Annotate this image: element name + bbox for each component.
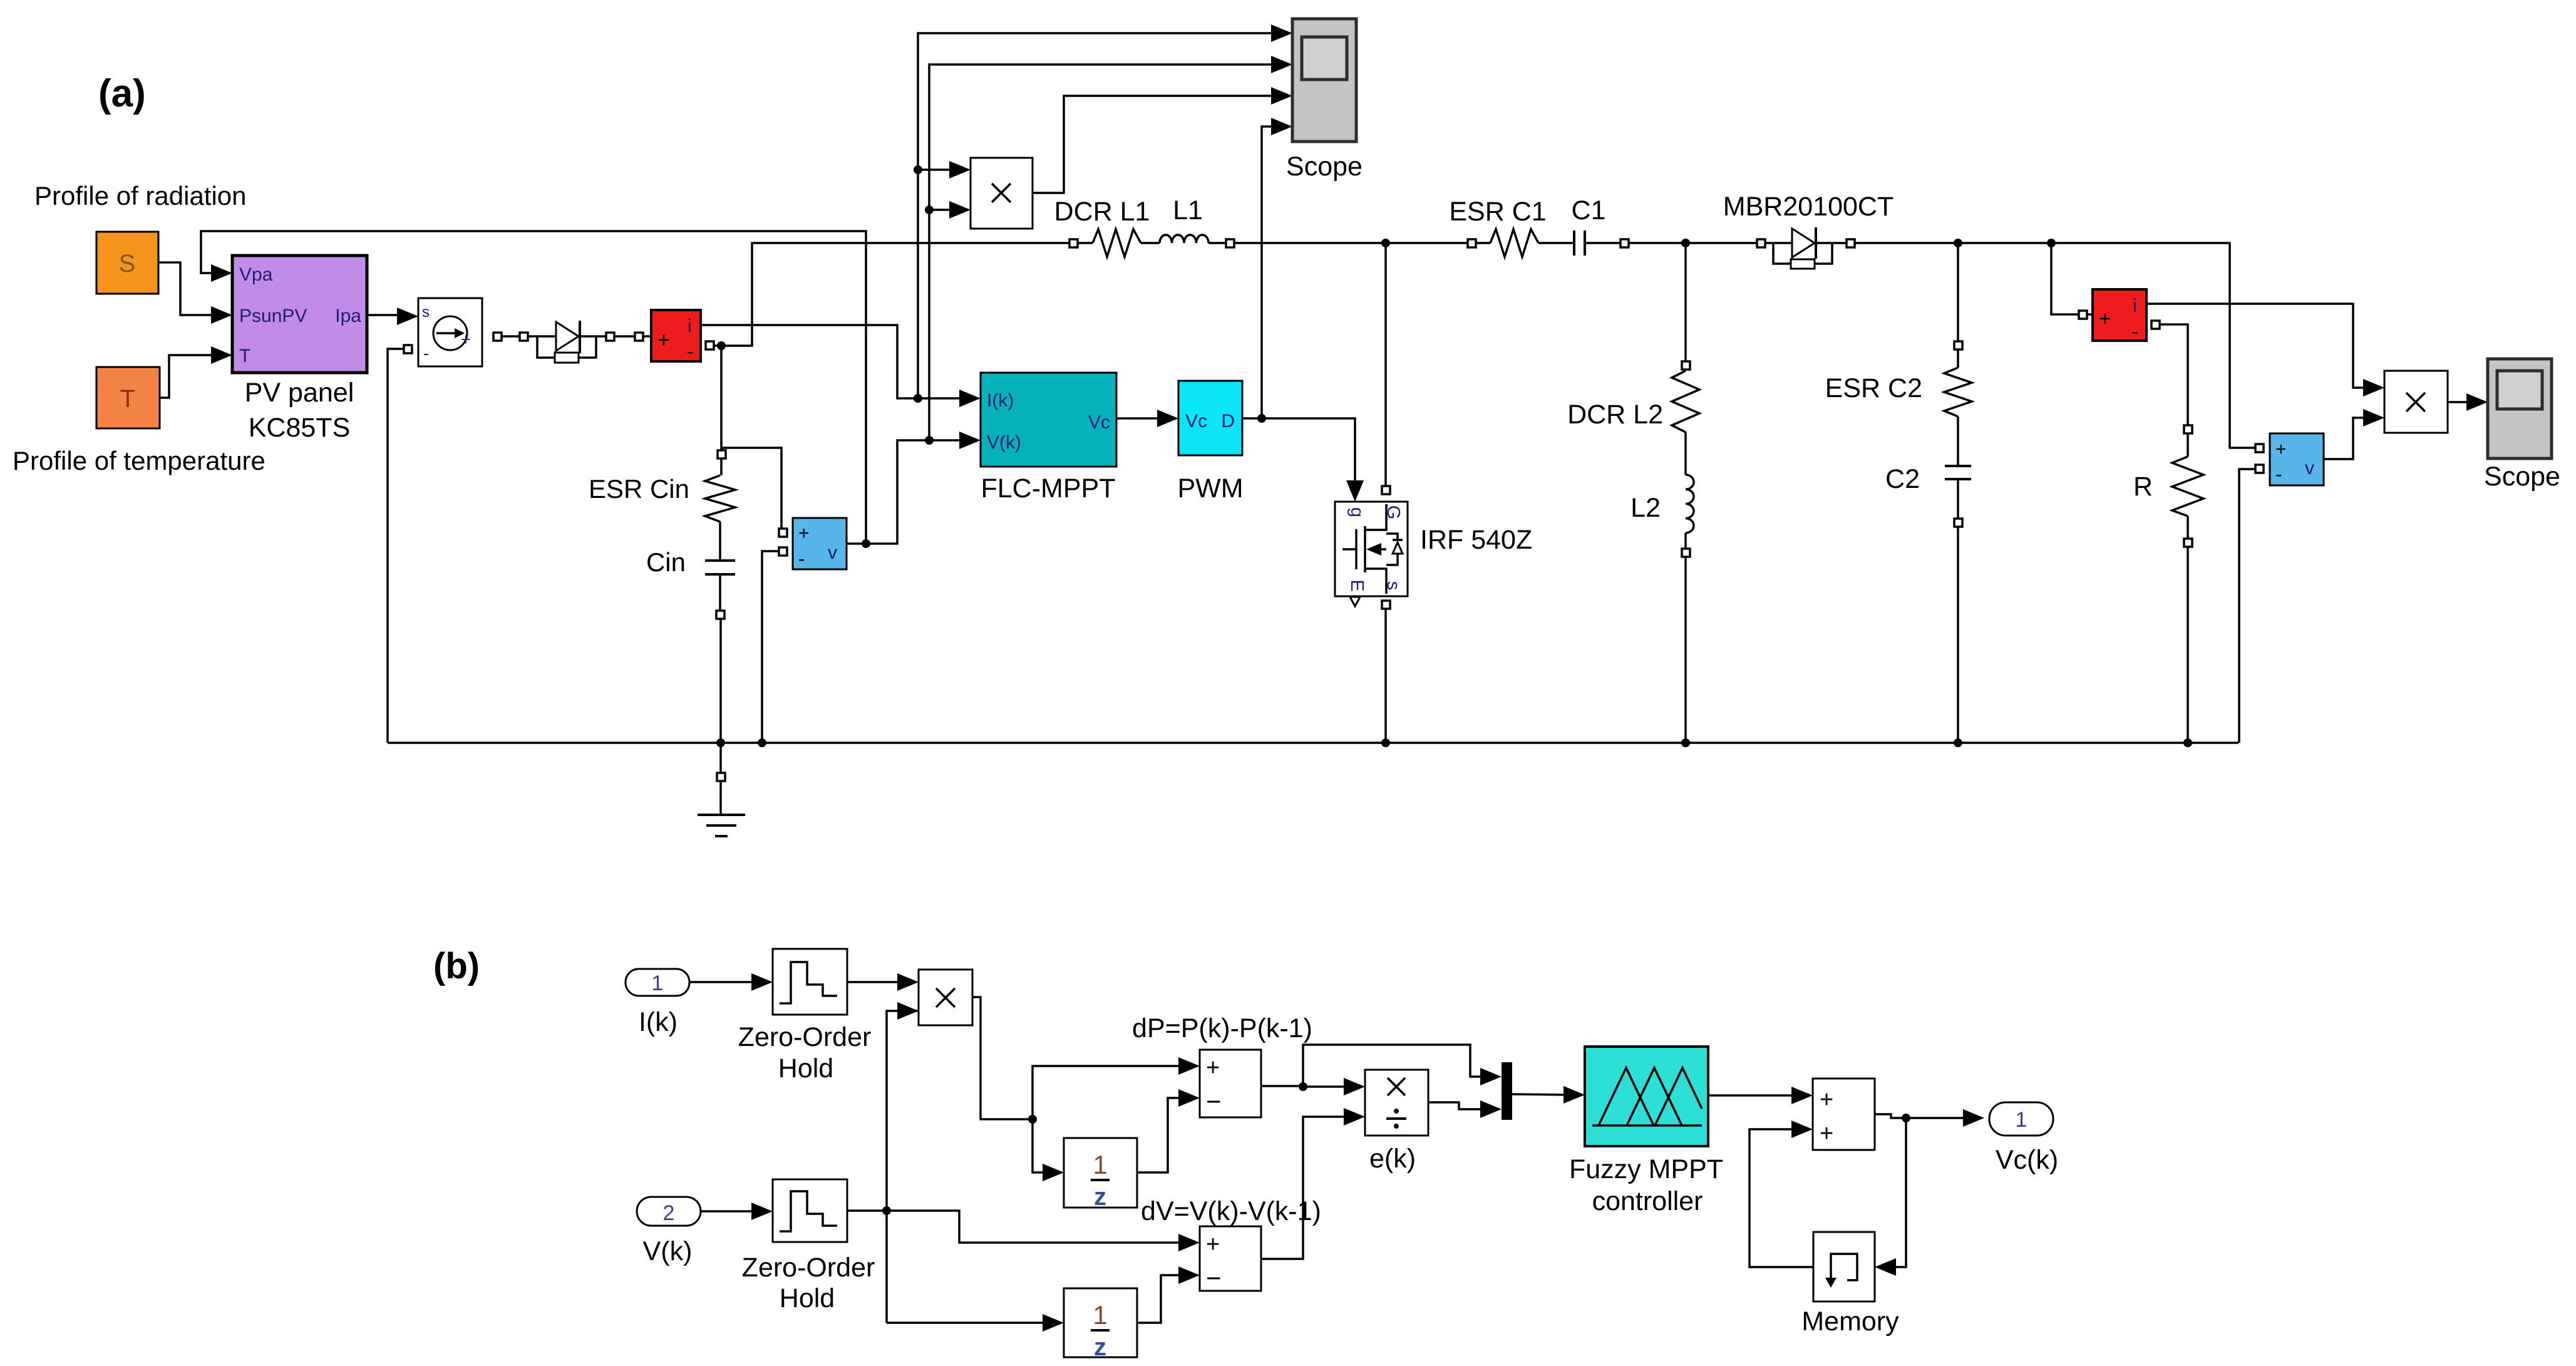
wire v2 output to product P2 bbox=[2324, 409, 2384, 459]
svg-text:FLC-MPPT: FLC-MPPT bbox=[981, 473, 1116, 504]
svg-text:i: i bbox=[688, 316, 692, 336]
wire inport2 to ZOH2 bbox=[701, 1203, 773, 1220]
svg-text:-: - bbox=[423, 344, 429, 363]
svg-text:(b): (b) bbox=[433, 946, 480, 986]
svg-text:+: + bbox=[657, 328, 670, 352]
svg-text:Profile of temperature: Profile of temperature bbox=[13, 446, 265, 475]
svg-text:e(k): e(k) bbox=[1369, 1144, 1416, 1174]
controlled current source bbox=[418, 298, 482, 366]
svg-text:Memory: Memory bbox=[1801, 1306, 1899, 1337]
wire scope input 2 (voltage tap) bbox=[925, 56, 1292, 440]
wire S to Psun bbox=[158, 262, 213, 315]
wire Ipa to controlled current source bbox=[367, 314, 398, 316]
svg-text:+: + bbox=[798, 523, 810, 544]
wire v2 minus to bottom rail bbox=[2239, 465, 2264, 743]
wire i2 minus to resistor R bbox=[2151, 321, 2192, 433]
wire Vpa feedback bbox=[201, 231, 866, 544]
constant block S bbox=[96, 232, 158, 294]
wire V tap to product Pb input 2 bbox=[882, 1002, 919, 1323]
wire i1 minus to main rail bbox=[706, 243, 1071, 350]
svg-text:R: R bbox=[2133, 472, 2153, 502]
main rail DCR L1 segment bbox=[1069, 239, 1093, 247]
divide block e(k) bbox=[1365, 1070, 1428, 1174]
svg-text:E: E bbox=[1347, 579, 1367, 591]
wire memory to sum input 2 bbox=[1749, 1120, 1813, 1267]
outport 1 bbox=[1989, 1102, 2058, 1175]
wire mux to fuzzy controller bbox=[1512, 1086, 1585, 1104]
svg-text:MBR20100CT: MBR20100CT bbox=[1723, 192, 1893, 222]
subsystem FLC-MPPT bbox=[981, 373, 1116, 504]
wire divide output to mux input 2 bbox=[1428, 1100, 1502, 1118]
wire P2 to Scope2 bbox=[2448, 393, 2488, 411]
svg-text:Zero-Order: Zero-Order bbox=[742, 1253, 875, 1283]
inport 1 bbox=[626, 969, 689, 1037]
wire dP output node bbox=[1261, 1082, 1307, 1091]
svg-text:g: g bbox=[1347, 507, 1367, 517]
wire P1 output to scope input 3 bbox=[1033, 87, 1292, 193]
svg-text:ESR C1: ESR C1 bbox=[1449, 197, 1546, 227]
mux bbox=[1502, 1062, 1512, 1120]
wire sum output node bbox=[1875, 1114, 1910, 1122]
wire R to bottom rail bbox=[2183, 547, 2192, 747]
svg-text:+: + bbox=[1820, 1087, 1833, 1113]
zero-order hold ZOH1 bbox=[738, 949, 872, 1084]
bottom ground rail bbox=[388, 742, 2239, 744]
wire C2 to bottom rail bbox=[1954, 527, 1962, 747]
svg-text:-: - bbox=[2131, 320, 2138, 343]
svg-text:Zero-Order: Zero-Order bbox=[738, 1022, 872, 1052]
wire Pb output to node bbox=[972, 997, 1037, 1124]
svg-text:DCR L2: DCR L2 bbox=[1567, 400, 1663, 430]
svg-text:+: + bbox=[1820, 1120, 1833, 1147]
wire diode to current measurement bbox=[606, 333, 651, 341]
product block P1 bbox=[971, 158, 1033, 229]
svg-text:Profile of radiation: Profile of radiation bbox=[34, 181, 247, 210]
inport 2 bbox=[637, 1197, 701, 1266]
svg-text:z: z bbox=[1094, 1333, 1106, 1361]
wire current source output to diode bbox=[493, 333, 528, 341]
MOSFET E port marker bbox=[1350, 597, 1360, 606]
wire v1 minus to bottom rail bbox=[758, 547, 787, 747]
wire unit delay 1 to dP minus bbox=[1137, 1089, 1200, 1172]
wire v1 output to FLC V(k) bbox=[847, 432, 981, 548]
wire rail to MOSFET drain bbox=[1382, 243, 1390, 494]
svg-text:dV=V(k)-V(k-1): dV=V(k)-V(k-1) bbox=[1141, 1196, 1321, 1226]
branch DCR L2 column top bbox=[1684, 243, 1687, 361]
svg-text:-: - bbox=[2275, 463, 2282, 485]
svg-text:Fuzzy MPPT: Fuzzy MPPT bbox=[1569, 1154, 1723, 1184]
wire node to outport bbox=[1906, 1109, 1984, 1127]
diode MBR20100CT bbox=[1723, 192, 1893, 269]
main rail right segment bbox=[1855, 239, 2255, 448]
constant block T bbox=[96, 367, 160, 428]
wire PWM tap to scope input 4 bbox=[1262, 118, 1292, 418]
inductor L2 bbox=[1631, 432, 1694, 557]
resistor ESR C2 bbox=[1825, 368, 1972, 417]
svg-text:1: 1 bbox=[652, 971, 664, 995]
capacitor C1 bbox=[1572, 195, 1629, 256]
svg-text:z: z bbox=[1094, 1183, 1106, 1211]
svg-text:Scope: Scope bbox=[1286, 152, 1363, 182]
MOSFET IRF 540Z bbox=[1335, 502, 1408, 596]
wire fuzzy to sum bbox=[1708, 1087, 1813, 1104]
svg-text:1: 1 bbox=[1093, 1300, 1107, 1330]
svg-text:I(k): I(k) bbox=[639, 1007, 677, 1037]
svg-text:S: S bbox=[119, 250, 136, 277]
capacitor Cin bbox=[646, 522, 735, 619]
wire inport1 to ZOH1 bbox=[689, 973, 773, 991]
wire node to memory input bbox=[1875, 1118, 1906, 1276]
wire dP node to mux input 1 bbox=[1303, 1045, 1502, 1087]
wire dP node to divide x input bbox=[1303, 1078, 1365, 1095]
svg-text:L1: L1 bbox=[1173, 195, 1203, 225]
svg-text:(a): (a) bbox=[98, 72, 146, 115]
wire unit delay 2 to dV minus bbox=[1137, 1266, 1200, 1323]
wire rail to current measurement i2 bbox=[2051, 243, 2093, 319]
svg-text:1: 1 bbox=[2016, 1108, 2027, 1132]
svg-text:DCR L1: DCR L1 bbox=[1054, 197, 1150, 227]
svg-text:Vc: Vc bbox=[1185, 411, 1207, 432]
wire PWM D to MOSFET gate bbox=[1242, 414, 1364, 502]
voltage measurement block v1 bbox=[793, 518, 847, 570]
svg-text:s: s bbox=[422, 304, 430, 321]
svg-text:ESR Cin: ESR Cin bbox=[589, 474, 689, 504]
resistor DCR L2 bbox=[1567, 371, 1699, 432]
svg-text:D: D bbox=[1221, 411, 1235, 432]
ground bbox=[698, 815, 745, 836]
svg-text:+: + bbox=[461, 330, 471, 349]
svg-text:C1: C1 bbox=[1572, 195, 1606, 225]
svg-text:I(k): I(k) bbox=[987, 390, 1014, 411]
unit delay 1/z 2 bbox=[1064, 1288, 1137, 1361]
current measurement block i1 bbox=[651, 310, 701, 363]
svg-text:PsunPV: PsunPV bbox=[239, 306, 307, 326]
svg-text:Ipa: Ipa bbox=[335, 306, 361, 326]
subsystem PWM bbox=[1177, 381, 1243, 504]
svg-text:−: − bbox=[1206, 1263, 1222, 1293]
svg-text:KC85TS: KC85TS bbox=[249, 413, 351, 443]
unit delay 1/z 1 bbox=[1064, 1138, 1137, 1211]
svg-text:V(k): V(k) bbox=[987, 432, 1021, 453]
svg-text:V(k): V(k) bbox=[643, 1236, 693, 1266]
diode D1 with snubber bbox=[528, 321, 605, 363]
wire i1 output to FLC I(k) bbox=[701, 325, 981, 407]
wire T to T input bbox=[160, 355, 213, 398]
wire i2 output to product P2 bbox=[2146, 304, 2384, 396]
sum block dP bbox=[1132, 1013, 1312, 1117]
memory block bbox=[1801, 1232, 1899, 1337]
wire V tap to unit delay 2 bbox=[887, 1314, 1064, 1332]
svg-text:−: − bbox=[1206, 1087, 1222, 1116]
svg-text:ESR C2: ESR C2 bbox=[1825, 373, 1922, 403]
sum block dV bbox=[1141, 1196, 1321, 1293]
svg-text:Vpa: Vpa bbox=[239, 264, 273, 285]
svg-text:Hold: Hold bbox=[778, 1053, 833, 1084]
svg-text:IRF 540Z: IRF 540Z bbox=[1420, 525, 1532, 555]
svg-text:+: + bbox=[2275, 439, 2287, 460]
wire current source minus to bottom rail bbox=[388, 345, 412, 743]
resistor ESR C1 bbox=[1449, 197, 1573, 257]
zero-order hold ZOH2 bbox=[742, 1179, 875, 1313]
svg-text:Cin: Cin bbox=[646, 547, 686, 577]
svg-text:1: 1 bbox=[1093, 1150, 1107, 1179]
wire node to unit delay 1 bbox=[1033, 1119, 1064, 1181]
svg-text:dP=P(k)-P(k-1): dP=P(k)-P(k-1) bbox=[1132, 1013, 1312, 1043]
resistor ESR Cin bbox=[589, 474, 735, 522]
resistor DCR L1 bbox=[1054, 197, 1160, 257]
svg-text:-: - bbox=[687, 340, 694, 363]
svg-text:Vc(k): Vc(k) bbox=[1996, 1145, 2058, 1175]
svg-text:2: 2 bbox=[663, 1201, 675, 1225]
product block P2 bbox=[2384, 371, 2448, 433]
branch ESR C2 column top bbox=[1954, 243, 1962, 368]
wire L2 to bottom rail bbox=[1681, 557, 1690, 747]
svg-text:Hold: Hold bbox=[780, 1283, 835, 1313]
svg-text:controller: controller bbox=[1592, 1186, 1703, 1216]
svg-text:L2: L2 bbox=[1631, 493, 1661, 523]
svg-text:i: i bbox=[2133, 296, 2137, 316]
svg-text:v: v bbox=[2305, 458, 2314, 479]
sum block Vc bbox=[1813, 1079, 1875, 1150]
svg-text:Scope: Scope bbox=[2484, 462, 2560, 492]
current measurement block i2 bbox=[2093, 289, 2146, 343]
wire Cin to bottom rail bbox=[716, 619, 725, 814]
resistor R bbox=[2133, 433, 2203, 547]
svg-text:PV panel: PV panel bbox=[245, 378, 354, 408]
svg-text:T: T bbox=[120, 385, 135, 413]
svg-text:v: v bbox=[828, 542, 837, 563]
capacitor C2 bbox=[1885, 417, 1971, 527]
wire MOSFET source to bottom rail bbox=[1381, 601, 1390, 747]
svg-text:-: - bbox=[798, 547, 805, 570]
fuzzy MPPT controller block bbox=[1569, 1047, 1723, 1216]
wire ZOH1 to product Pb bbox=[847, 973, 919, 991]
wire dV output to divide input bbox=[1261, 1108, 1365, 1259]
product block Pb bbox=[919, 970, 972, 1025]
wire node to ESR Cin and v1 plus bbox=[718, 346, 787, 537]
scope block Scope1 bbox=[1286, 19, 1363, 182]
wire FLC Vc to PWM bbox=[1116, 410, 1178, 427]
main rail to MBR diode bbox=[1629, 239, 1765, 247]
main rail to ESR C1 bbox=[1234, 239, 1468, 247]
wire ZOH2 to dV plus bbox=[847, 1211, 1200, 1251]
wire scope input 1 (current tap) bbox=[914, 24, 1292, 398]
inductor L1 bbox=[1160, 195, 1234, 247]
wire node to dP plus bbox=[1033, 1057, 1200, 1119]
voltage measurement block v2 bbox=[2255, 433, 2324, 485]
svg-text:T: T bbox=[239, 346, 250, 366]
subsystem PV panel KC85TS bbox=[232, 256, 367, 443]
svg-text:+: + bbox=[1206, 1055, 1220, 1081]
svg-text:+: + bbox=[1206, 1231, 1220, 1258]
scope block Scope2 bbox=[2484, 359, 2560, 492]
svg-text:C2: C2 bbox=[1885, 464, 1920, 494]
svg-text:+: + bbox=[2099, 307, 2111, 331]
svg-text:PWM: PWM bbox=[1177, 473, 1243, 504]
svg-text:Vc: Vc bbox=[1088, 412, 1110, 433]
